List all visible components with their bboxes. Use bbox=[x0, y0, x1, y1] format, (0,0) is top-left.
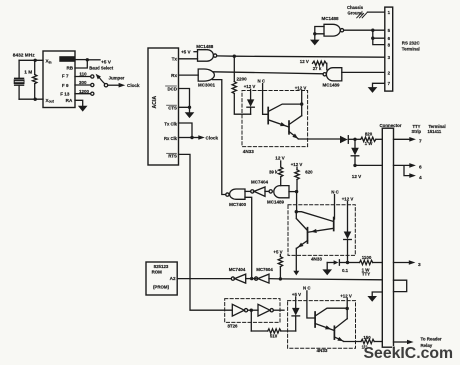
wire jumper to clock bbox=[108, 84, 119, 86]
svg-text:27 k: 27 k bbox=[313, 66, 322, 71]
resistor 27k bbox=[313, 61, 327, 65]
wire node down to pin 6 and 8 bbox=[373, 30, 385, 44]
svg-text:SeekIC.com: SeekIC.com bbox=[364, 345, 454, 362]
diode shunt to 12V bbox=[354, 139, 356, 148]
wire pins 6 and 4 bbox=[394, 165, 410, 175]
transistor Q2 (4N33 no.2) bbox=[307, 228, 309, 243]
svg-text:MC3001: MC3001 bbox=[198, 82, 216, 87]
svg-text:+12 V: +12 V bbox=[295, 85, 307, 90]
gate MC1489 A (from pin 2) bbox=[326, 68, 341, 81]
jumper arm bbox=[104, 84, 107, 87]
wire F9 300 bbox=[75, 84, 91, 86]
svg-text:3: 3 bbox=[418, 262, 421, 268]
terminal F9 bbox=[91, 83, 94, 86]
svg-text:(PROM): (PROM) bbox=[153, 284, 170, 289]
wire emitter no.3 out bbox=[344, 341, 362, 343]
svg-text:Clock: Clock bbox=[206, 136, 219, 141]
node pin6 bbox=[371, 37, 374, 40]
tab on connector bbox=[394, 280, 407, 291]
transistor Q1 (4N33 no.1) bbox=[267, 108, 269, 124]
optocoupler 4N33 no.2 box bbox=[288, 205, 355, 256]
svg-text:N C: N C bbox=[331, 189, 339, 194]
gate MC7400 (reader control) bbox=[226, 193, 229, 196]
wire emitter out no.1 bbox=[298, 138, 340, 140]
node collector no.2 bbox=[295, 210, 298, 213]
buffer B 8T26 bbox=[258, 304, 270, 316]
svg-text:620: 620 bbox=[305, 170, 313, 175]
transistor Q1 (4N33 no.3) bbox=[314, 312, 316, 327]
node MC1488B input bbox=[313, 32, 316, 35]
svg-text:Strip: Strip bbox=[412, 129, 422, 134]
wire inverter to connector bbox=[269, 279, 382, 280]
svg-text:1 W: 1 W bbox=[365, 141, 374, 146]
svg-text:39 k: 39 k bbox=[269, 169, 278, 174]
wire pin 7 TTY bbox=[394, 138, 410, 140]
wire Xin top bbox=[19, 59, 43, 61]
svg-text:8432 MHz: 8432 MHz bbox=[13, 52, 35, 58]
wire MC3001 lower input down to MC7400 bbox=[213, 80, 226, 195]
svg-text:110: 110 bbox=[79, 72, 87, 77]
svg-text:151411: 151411 bbox=[428, 129, 442, 134]
svg-text:MC1489: MC1489 bbox=[322, 82, 340, 87]
wire buffer B out bbox=[273, 309, 284, 311]
resistor pull-up bbox=[279, 254, 281, 256]
wire To Reader Relay bbox=[394, 341, 408, 343]
wire NC base lead no.2 bbox=[333, 195, 336, 219]
svg-text:Rx: Rx bbox=[171, 73, 177, 78]
crystal Y1 8432 MHz bbox=[15, 78, 24, 85]
chassis ground symbol bbox=[357, 12, 368, 18]
wire F7 110 bbox=[75, 76, 91, 78]
svg-text:510: 510 bbox=[270, 334, 278, 339]
wire CTS bbox=[179, 107, 190, 112]
ground connector bbox=[367, 296, 377, 302]
svg-text:Tx Clk: Tx Clk bbox=[164, 121, 177, 126]
svg-text:F 13: F 13 bbox=[60, 92, 70, 97]
gate MC1489 B (middle) bbox=[269, 190, 272, 193]
svg-text:N C: N C bbox=[303, 286, 311, 291]
svg-text:820: 820 bbox=[365, 131, 373, 136]
svg-text:Baud Select: Baud Select bbox=[89, 66, 114, 71]
svg-text:+12 V: +12 V bbox=[342, 197, 354, 202]
svg-text:ROM: ROM bbox=[152, 270, 163, 275]
LED D1 in 4N33 no.1 bbox=[250, 89, 252, 99]
svg-text:F 9: F 9 bbox=[62, 83, 69, 88]
node collector no.1 bbox=[300, 102, 303, 105]
svg-text:RTS: RTS bbox=[168, 154, 177, 159]
svg-text:RS 232C: RS 232C bbox=[402, 41, 421, 46]
pin label Reset (inverse) bbox=[59, 56, 75, 62]
svg-text:0.1: 0.1 bbox=[342, 268, 349, 273]
svg-text:8T26: 8T26 bbox=[227, 324, 238, 329]
transistor Q2 (4N33 no.3) bbox=[333, 326, 335, 339]
wire cap to ground bbox=[326, 263, 328, 270]
wire NC base lead no.3 bbox=[307, 291, 315, 318]
svg-text:+5 V: +5 V bbox=[181, 49, 192, 54]
svg-text:Rx Clk: Rx Clk bbox=[164, 136, 178, 141]
svg-text:Clock: Clock bbox=[127, 83, 140, 88]
node Tx line / 2200 bbox=[233, 55, 236, 58]
svg-text:N C: N C bbox=[258, 78, 266, 83]
ground MC1488B bbox=[310, 40, 320, 46]
svg-text:MC7404: MC7404 bbox=[229, 267, 246, 272]
ACIA U2 bbox=[148, 48, 179, 165]
terminal F13 bbox=[91, 92, 94, 95]
node +5V pull-up bbox=[279, 277, 282, 280]
svg-text:+5 V: +5 V bbox=[292, 292, 301, 297]
svg-text:MC1489: MC1489 bbox=[267, 200, 285, 205]
node clock junction bbox=[190, 136, 193, 139]
node Xout-1M junction bbox=[34, 98, 37, 101]
wire F13 1200 bbox=[75, 93, 91, 95]
wire MC3001 upper input from MC1489 bbox=[214, 72, 324, 74]
wire Tx to MC1488 bbox=[179, 58, 198, 60]
wire RA to ground bbox=[75, 100, 83, 106]
svg-text:Jumper: Jumper bbox=[109, 75, 125, 80]
svg-text:F 7: F 7 bbox=[62, 74, 69, 79]
capacitor 0.1 bbox=[327, 262, 333, 264]
connector TTY bbox=[382, 128, 393, 347]
svg-text:MC7400: MC7400 bbox=[229, 202, 247, 207]
ground pin7 bbox=[368, 87, 378, 93]
svg-text:To Reader: To Reader bbox=[421, 337, 442, 342]
svg-text:1200: 1200 bbox=[79, 89, 90, 94]
svg-text:4N33: 4N33 bbox=[317, 348, 328, 353]
wire RB to +5V node bbox=[75, 60, 87, 68]
wire Xout bottom bbox=[19, 98, 43, 100]
wire +5V stub bbox=[87, 59, 100, 61]
wire MC1489B input bbox=[289, 191, 297, 193]
connector RS232C bbox=[385, 7, 393, 91]
svg-text:Terminal: Terminal bbox=[402, 47, 420, 52]
node 1100 line bbox=[346, 261, 349, 264]
svg-text:MC7604: MC7604 bbox=[256, 267, 273, 272]
ROM 825123 A2 bbox=[146, 262, 177, 295]
node MC7400 input tie bbox=[250, 277, 253, 280]
node 12V TTY bbox=[353, 164, 356, 167]
wire MC7400 upper input bbox=[245, 190, 251, 192]
buffer A 8T26 bbox=[232, 304, 244, 316]
wire emitter no.2 down bbox=[295, 248, 297, 270]
optocoupler 4N33 no.1 box bbox=[242, 91, 308, 147]
svg-text:CTS: CTS bbox=[168, 106, 177, 111]
svg-text:A2: A2 bbox=[170, 276, 176, 281]
wire pin 3 bbox=[394, 262, 409, 264]
svg-text:ACIA: ACIA bbox=[152, 96, 158, 109]
svg-text:MC1488: MC1488 bbox=[196, 44, 214, 49]
ground 0.1 bbox=[322, 269, 332, 275]
svg-text:825123: 825123 bbox=[154, 264, 169, 269]
node collector no.3 bbox=[346, 307, 349, 310]
wire NC base lead no.1 bbox=[263, 84, 269, 115]
wire +12V to collector node bbox=[301, 90, 303, 115]
svg-text:Chassis: Chassis bbox=[347, 5, 364, 10]
gate MC3001 (Rx) bbox=[198, 69, 214, 81]
wire collector no.2 up to MC1489B bbox=[296, 192, 298, 212]
svg-text:DCD: DCD bbox=[167, 86, 177, 91]
node CTS-DCD bbox=[188, 106, 191, 109]
wire pin2 to MC1489A bbox=[342, 71, 385, 73]
buffer 8T26 box bbox=[225, 299, 280, 323]
wire chassis to pin1 bbox=[368, 11, 385, 13]
wire 12V node to connector bbox=[355, 164, 382, 166]
wire crystal left bbox=[18, 60, 20, 99]
svg-text:TTY: TTY bbox=[362, 272, 370, 277]
svg-text:Reset: Reset bbox=[61, 57, 73, 62]
svg-text:4: 4 bbox=[419, 175, 422, 181]
svg-text:+12 V: +12 V bbox=[340, 293, 352, 298]
wire Rx from MC3001 bbox=[179, 74, 199, 76]
optocoupler 4N33 no.3 box bbox=[288, 301, 356, 349]
wire DCD down bbox=[179, 89, 190, 108]
wire Tx Clk bbox=[179, 123, 193, 138]
svg-text:MC1488: MC1488 bbox=[321, 16, 339, 21]
wire +5V to MC1488 input bbox=[194, 51, 198, 53]
svg-text:4N33: 4N33 bbox=[243, 149, 254, 154]
svg-text:Xout: Xout bbox=[46, 98, 55, 104]
ground RA bbox=[78, 106, 88, 112]
svg-text:6: 6 bbox=[419, 165, 422, 171]
wire ROM A2 to inverter bbox=[177, 278, 231, 280]
wire pin7 to ground bbox=[373, 83, 385, 87]
node pin5 bbox=[371, 29, 374, 32]
wire connector ground stub bbox=[372, 292, 382, 296]
wire MC1488B out to pin5 bbox=[344, 29, 385, 31]
svg-text:Xin: Xin bbox=[46, 59, 52, 65]
svg-text:300: 300 bbox=[79, 80, 87, 85]
svg-text:4N33: 4N33 bbox=[311, 257, 322, 262]
svg-text:Connector: Connector bbox=[380, 123, 402, 128]
svg-text:RA: RA bbox=[66, 98, 73, 103]
ground CTS bbox=[185, 112, 195, 118]
svg-text:MC7404: MC7404 bbox=[251, 180, 269, 185]
svg-text:1 M: 1 M bbox=[24, 70, 32, 76]
svg-text:1100: 1100 bbox=[362, 255, 372, 260]
svg-text:12 V: 12 V bbox=[275, 156, 285, 161]
svg-text:RB: RB bbox=[66, 66, 73, 71]
transistor Q1 (4N33 no.2) bbox=[333, 218, 335, 231]
node +5V baud bbox=[86, 58, 89, 61]
wire RTS down to 8T26 bbox=[179, 154, 233, 310]
baud generator chip U1 bbox=[43, 51, 75, 108]
svg-text:+5 V: +5 V bbox=[273, 249, 282, 254]
node Xin-1M junction bbox=[34, 59, 37, 62]
wire buffer junction bbox=[248, 309, 258, 311]
wire clock arrow bbox=[192, 137, 198, 139]
wire MC1488 out to RS232 pin3 bbox=[217, 56, 385, 57]
wire +12V to collector no.3 bbox=[346, 298, 348, 318]
wire Rx Clk bbox=[179, 137, 193, 139]
wire Reset to +5V node bbox=[75, 59, 87, 61]
svg-text:12 V: 12 V bbox=[300, 59, 309, 64]
LED D2 in 4N33 no.2 bbox=[347, 202, 349, 232]
svg-text:2200: 2200 bbox=[237, 77, 248, 82]
LED D3 in 4N33 no.3 bbox=[295, 297, 297, 308]
node diode junction bbox=[353, 138, 356, 141]
wire MC1488B inputs tied bbox=[315, 27, 324, 40]
wire MC7400 out to MC3001 lead bbox=[225, 194, 227, 196]
wire junction down to 510 bbox=[250, 310, 252, 331]
wire between inverters bbox=[246, 278, 256, 280]
svg-text:+12 V: +12 V bbox=[244, 84, 256, 89]
transistor Q2 (4N33 no.1) bbox=[288, 121, 290, 134]
wire MC7400 lower input down bbox=[245, 197, 252, 278]
svg-text:+12 V: +12 V bbox=[291, 162, 303, 167]
node 620 junction bbox=[295, 190, 298, 193]
diode series (TTY loop) bbox=[340, 136, 348, 144]
svg-text:12 V: 12 V bbox=[352, 174, 362, 179]
svg-text:7: 7 bbox=[419, 139, 422, 145]
svg-text:+5 V: +5 V bbox=[101, 59, 112, 65]
wire MC7404 input bbox=[265, 190, 269, 192]
terminal F7 bbox=[91, 75, 94, 78]
svg-text:Tx: Tx bbox=[172, 57, 178, 62]
